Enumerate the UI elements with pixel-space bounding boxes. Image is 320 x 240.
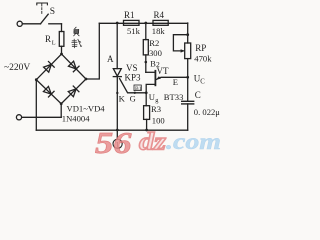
svg-text:R4: R4 — [154, 10, 165, 20]
wire RL to bridge top — [61, 46, 63, 54]
svg-text:KP3: KP3 — [125, 73, 142, 83]
svg-text:R: R — [45, 34, 51, 44]
emitter arrowhead — [156, 76, 161, 79]
resistor R1 — [124, 20, 140, 25]
svg-text:.com: .com — [166, 129, 221, 154]
node cathode-rail junction — [116, 129, 119, 132]
wire bottom rail — [36, 129, 187, 131]
svg-text:R3: R3 — [151, 104, 161, 114]
wire bridge bottom corner down — [60, 104, 62, 118]
svg-text:~220V: ~220V — [4, 63, 30, 73]
svg-text:R1: R1 — [124, 10, 135, 20]
svg-text:dz: dz — [139, 127, 166, 156]
svg-text:VD1~VD4: VD1~VD4 — [67, 104, 106, 114]
wire SCR anode — [116, 23, 118, 69]
wire B1 lead — [146, 84, 155, 105]
boxed label B1 — [134, 85, 141, 91]
svg-text:L: L — [52, 39, 56, 46]
svg-text:C: C — [195, 90, 201, 100]
terminal upper AC — [17, 21, 22, 26]
node R3-rail junction — [145, 129, 148, 132]
svg-text:0. 022μ: 0. 022μ — [194, 107, 220, 117]
svg-text:B1: B1 — [135, 86, 142, 92]
wire rail right down — [187, 23, 189, 43]
resistor R4 — [153, 20, 168, 25]
svg-text:S: S — [50, 7, 55, 17]
svg-text:A: A — [107, 54, 114, 64]
wire cap to rail — [187, 104, 189, 130]
resistor RL — [59, 32, 64, 47]
bridge frame wires — [36, 54, 86, 104]
svg-text:g: g — [155, 97, 159, 104]
node bridge right — [85, 78, 88, 81]
wire switch to corner — [49, 23, 62, 25]
svg-text:51k: 51k — [127, 26, 141, 36]
svg-text:100: 100 — [152, 116, 165, 126]
node rail-SCR junction — [116, 22, 119, 25]
svg-text:18k: 18k — [152, 26, 166, 36]
svg-text:56: 56 — [95, 125, 132, 155]
label load hanzi FU — [74, 27, 79, 36]
wire bridge right corner jog — [86, 23, 99, 79]
terminal circled 1 — [113, 139, 122, 148]
svg-text:BT33: BT33 — [164, 92, 184, 102]
svg-text:G: G — [130, 94, 136, 104]
svg-text:R2: R2 — [149, 38, 159, 48]
node on gate wire — [134, 92, 136, 94]
terminal lower AC — [16, 115, 21, 120]
wire lower AC to bridge — [22, 116, 62, 118]
RP wiper arrowhead — [181, 49, 185, 52]
wire R2 top — [145, 23, 147, 40]
svg-text:300: 300 — [149, 48, 162, 58]
svg-text:E: E — [173, 77, 178, 87]
wire terminal to switch — [22, 23, 40, 25]
resistor R3 — [144, 106, 150, 120]
wire R3 to rail — [146, 119, 148, 130]
watermark 56dz.com — [95, 125, 221, 160]
svg-text:1N4004: 1N4004 — [62, 114, 90, 124]
potentiometer RP — [185, 43, 191, 59]
diode VD bottom-right — [68, 86, 79, 97]
node on cathode wire — [116, 92, 118, 94]
thyristor VS triangle — [113, 69, 121, 77]
node rail-R2 junction — [144, 22, 147, 25]
wire B2 lead — [146, 71, 156, 73]
wire R2 to B2 — [145, 55, 147, 72]
node E-UC junction — [186, 76, 189, 79]
switch S dashed link — [41, 4, 43, 14]
node on B2 wire — [145, 61, 148, 64]
svg-text:K: K — [119, 94, 126, 104]
diode VD top-right — [68, 61, 79, 72]
switch S blade — [41, 14, 49, 24]
node gate-B1 junction — [145, 91, 148, 94]
switch S actuator bar — [37, 3, 48, 5]
wire bridge left corner down — [35, 80, 37, 131]
wire SCR gate — [120, 79, 147, 93]
svg-text:RP: RP — [195, 43, 206, 53]
resistor R2 — [143, 40, 148, 55]
wire corner down to RL — [61, 24, 63, 32]
node bridge top — [60, 53, 63, 56]
svg-text:470k: 470k — [194, 53, 212, 63]
diode VD top-left — [43, 62, 54, 73]
emitter wire E — [156, 77, 187, 79]
capacitor C plates — [182, 100, 194, 102]
svg-text:VS: VS — [126, 63, 138, 73]
wire top rail — [99, 22, 187, 24]
node bridge bottom — [60, 102, 63, 105]
label load hanzi ZAI — [72, 39, 82, 48]
thyristor VS cathode bar — [113, 76, 121, 78]
transistor VT base bar — [154, 71, 156, 86]
wire RP wiper loop — [173, 35, 187, 51]
svg-text:C: C — [200, 79, 205, 86]
svg-text:VT: VT — [157, 66, 169, 76]
diode VD bottom-left — [43, 86, 54, 97]
node bridge left — [35, 78, 38, 81]
node RP feedback junction — [186, 33, 189, 36]
wire RP to cap — [187, 59, 189, 101]
wire SCR cathode down — [116, 77, 118, 140]
